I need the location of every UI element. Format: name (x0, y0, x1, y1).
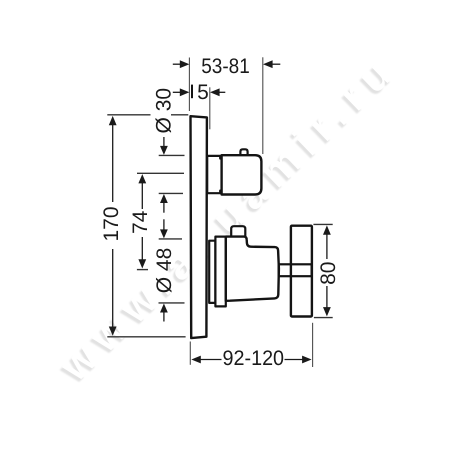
dimension 80 (cross handle height) (313, 224, 339, 317)
svg-text:92-120: 92-120 (223, 347, 285, 370)
dimension 53-81 (top) (173, 55, 280, 154)
svg-text:Ø 30: Ø 30 (152, 88, 175, 134)
upper sleeve (thermostat escutcheon collar) (207, 156, 221, 193)
dimension 170 (left overall) (100, 115, 189, 337)
cross handle bar (291, 226, 312, 317)
svg-text:74: 74 (129, 210, 152, 234)
cap button on lower valve body (231, 226, 245, 237)
handle stem (axle) (279, 264, 312, 276)
dimension diameter 30 (knob) (152, 88, 184, 213)
thermostat knob (upper handle) (222, 155, 262, 194)
svg-text:5: 5 (197, 81, 209, 104)
dimension 74 (between handle axes) (129, 173, 184, 269)
watermark www.aquamir.ru (48, 44, 406, 393)
dimension 5 (plate thickness) (173, 81, 226, 130)
lower collar piece (215, 237, 225, 307)
svg-text:80: 80 (317, 262, 340, 285)
svg-text:Ø 48: Ø 48 (153, 248, 176, 294)
top nub on thermostat knob (240, 149, 247, 156)
dimension diameter 48 (lower collar) (153, 219, 184, 321)
lower valve body (226, 237, 279, 301)
lower flange piece (against plate) (209, 241, 215, 303)
svg-text:53-81: 53-81 (201, 55, 250, 78)
escutcheon plate (side view) (191, 116, 207, 338)
svg-text:170: 170 (100, 206, 123, 241)
dimension 92-120 (bottom) (190, 323, 312, 370)
